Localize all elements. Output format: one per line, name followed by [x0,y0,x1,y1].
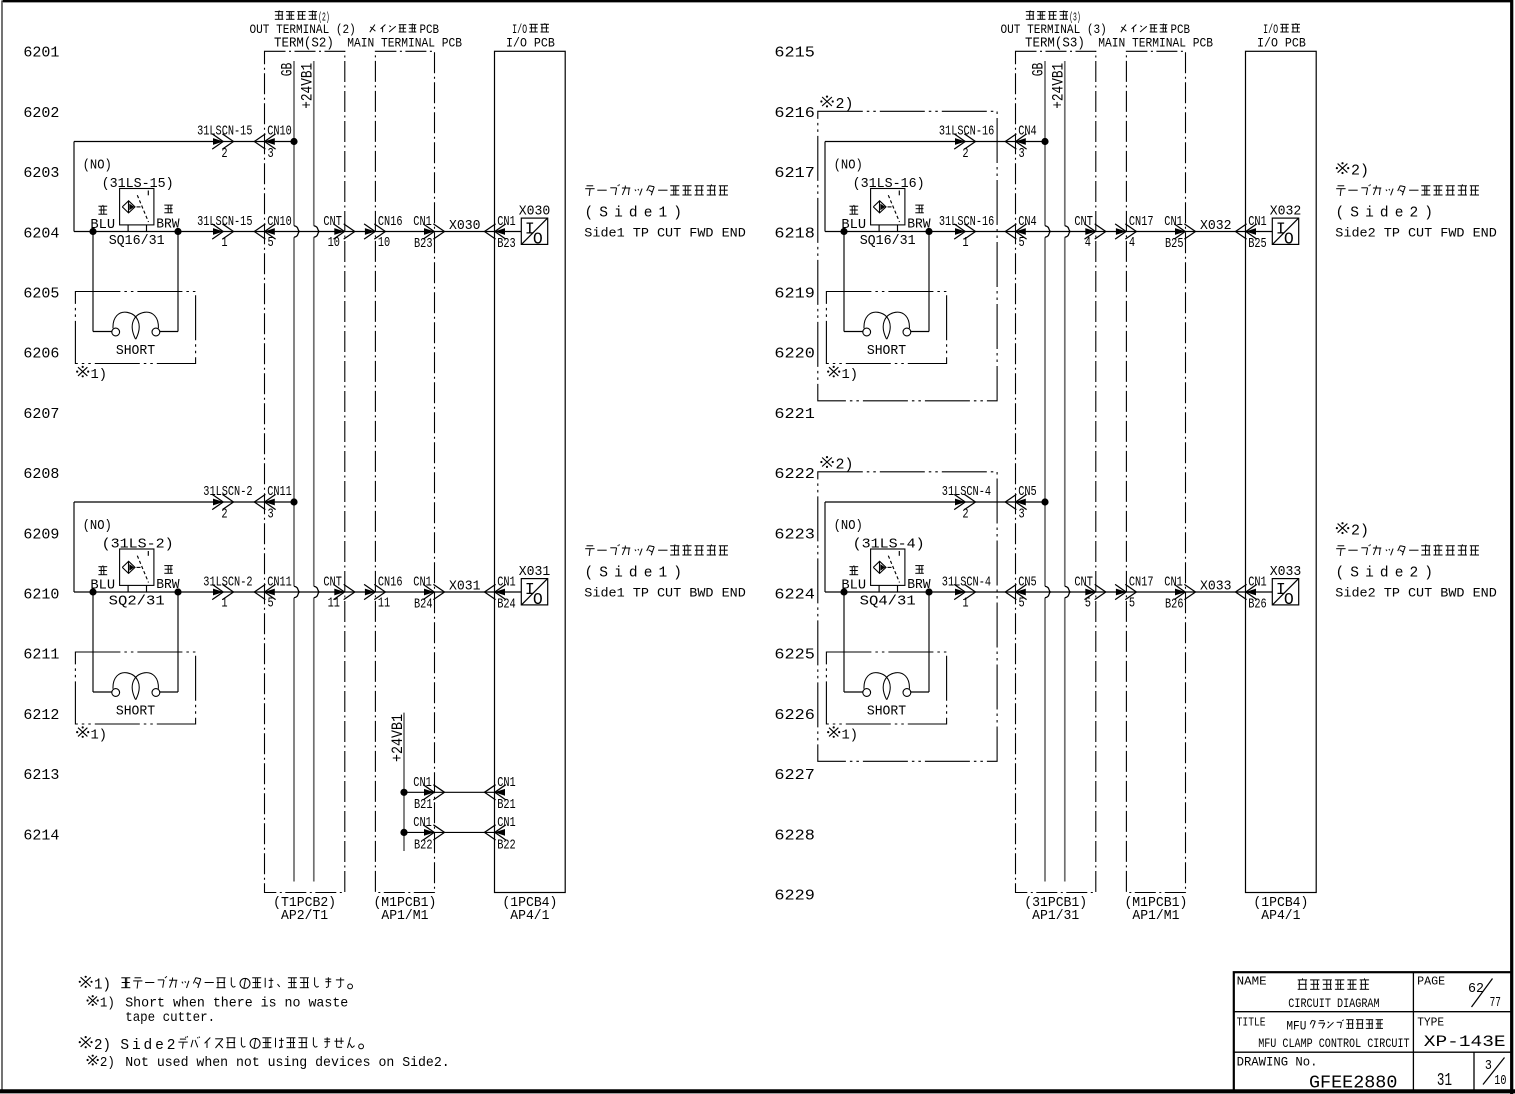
svg-text:CIRCUIT DIAGRAM: CIRCUIT DIAGRAM [1288,997,1379,1011]
svg-text:MAIN TERMINAL PCB: MAIN TERMINAL PCB [347,36,462,51]
svg-text:2): 2) [836,457,854,473]
svg-text:31LSCN-2: 31LSCN-2 [203,485,252,500]
svg-text:X030: X030 [449,219,481,234]
svg-text:B23: B23 [497,237,516,252]
svg-text:6206: 6206 [23,347,59,363]
svg-text:Not used when not using device: Not used when not using devices on Side2… [125,1055,450,1071]
svg-text:tape cutter.: tape cutter. [125,1010,215,1026]
svg-text:6213: 6213 [23,768,59,784]
svg-text:X031: X031 [449,579,481,594]
svg-text:6219: 6219 [774,287,815,303]
svg-text:O: O [1284,229,1294,248]
svg-text:5: 5 [1019,596,1025,611]
svg-text:(31LS-4): (31LS-4) [853,538,925,553]
svg-text:CN17: CN17 [1129,575,1154,590]
svg-text:(31LS-16): (31LS-16) [853,177,925,192]
svg-text:CN1: CN1 [413,816,432,831]
svg-text:1): 1) [91,367,108,383]
svg-text:5: 5 [268,236,274,251]
svg-text:CN1: CN1 [413,776,432,791]
svg-text:6216: 6216 [774,106,815,122]
svg-text:CN1: CN1 [497,816,516,831]
svg-text:B24: B24 [414,598,433,613]
svg-text:TITLE: TITLE [1237,1017,1266,1030]
svg-text:2: 2 [962,147,968,162]
svg-text:2): 2) [1351,524,1369,540]
svg-text:3: 3 [1485,1059,1492,1074]
svg-text:6208: 6208 [23,467,59,483]
svg-text:6210: 6210 [23,588,59,604]
svg-text:6217: 6217 [774,166,815,182]
svg-text:10: 10 [378,236,390,251]
svg-text:CN17: CN17 [1129,215,1154,230]
svg-text:6215: 6215 [774,46,815,62]
svg-text:B25: B25 [1248,237,1267,252]
svg-text:TERM(S3): TERM(S3) [1025,37,1085,52]
svg-text:CN11: CN11 [267,575,292,590]
svg-text:1): 1) [94,977,111,994]
svg-text:6221: 6221 [774,407,815,423]
svg-text:2): 2) [836,97,854,113]
svg-text:Side1 TP CUT BWD END: Side1 TP CUT BWD END [584,586,746,601]
svg-text:(NO): (NO) [834,159,863,174]
svg-text:SQ16/31: SQ16/31 [109,234,165,249]
svg-text:AP2/T1: AP2/T1 [281,909,328,924]
svg-text:1): 1) [100,996,115,1011]
svg-text:X030: X030 [519,204,551,219]
svg-text:GB: GB [279,63,297,77]
svg-text:O: O [1284,590,1294,609]
svg-text:2): 2) [100,1056,115,1071]
svg-text:CN1: CN1 [497,215,516,230]
svg-text:O: O [533,590,543,609]
svg-text:AP1/31: AP1/31 [1032,909,1079,924]
svg-text:2: 2 [221,147,227,162]
svg-text:B21: B21 [414,798,433,813]
svg-text:3: 3 [1019,147,1025,162]
svg-text:6201: 6201 [23,46,59,62]
svg-text:MAIN TERMINAL PCB: MAIN TERMINAL PCB [1098,36,1213,51]
svg-text:TERM(S2): TERM(S2) [274,37,334,52]
svg-text:6207: 6207 [23,407,59,423]
svg-text:3: 3 [268,508,274,523]
svg-text:O: O [533,229,543,248]
svg-text:10: 10 [328,236,340,251]
svg-text:3: 3 [1019,508,1025,523]
svg-text:31: 31 [1437,1071,1452,1091]
svg-text:CN1: CN1 [1164,215,1183,230]
svg-text:CN10: CN10 [267,125,292,140]
svg-text:(NO): (NO) [834,519,863,534]
svg-text:CN16: CN16 [378,575,403,590]
svg-text:CN1: CN1 [1248,575,1267,590]
svg-text:AP4/1: AP4/1 [510,909,549,924]
svg-text:PAGE: PAGE [1417,975,1445,988]
svg-text:2): 2) [94,1037,111,1054]
svg-text:5: 5 [268,596,274,611]
svg-text:5: 5 [1085,596,1091,611]
svg-text:31LSCN-16: 31LSCN-16 [939,125,994,140]
svg-text:6209: 6209 [23,527,59,543]
svg-text:(31LS-15): (31LS-15) [102,177,174,192]
svg-text:4: 4 [1129,236,1135,251]
svg-text:+24VB1: +24VB1 [298,63,316,109]
svg-text:1: 1 [221,596,227,611]
svg-text:CN4: CN4 [1018,215,1036,230]
svg-text:5: 5 [1129,596,1135,611]
svg-text:6226: 6226 [774,708,815,724]
svg-text:CN1: CN1 [497,776,516,791]
svg-text:+24VB1: +24VB1 [389,714,407,762]
svg-text:CN16: CN16 [378,215,403,230]
svg-text:Side2 TP CUT FWD END: Side2 TP CUT FWD END [1335,226,1497,241]
svg-text:(31LS-2): (31LS-2) [102,538,174,553]
svg-text:SHORT: SHORT [867,704,906,719]
svg-text:SHORT: SHORT [116,704,155,719]
svg-text:GB: GB [1030,63,1048,77]
svg-text:X032: X032 [1270,204,1302,219]
svg-text:CNT: CNT [323,575,342,590]
svg-text:1): 1) [842,727,859,743]
svg-text:11: 11 [378,596,390,611]
svg-text:31LSCN-4: 31LSCN-4 [942,575,991,590]
svg-text:CN10: CN10 [267,215,292,230]
svg-text:X032: X032 [1200,219,1232,234]
svg-text:SQ16/31: SQ16/31 [860,234,916,249]
svg-text:X033: X033 [1270,565,1302,580]
svg-text:SHORT: SHORT [867,344,906,359]
svg-text:2: 2 [962,507,968,522]
svg-text:CN1: CN1 [1164,575,1183,590]
svg-text:SQ2/31: SQ2/31 [109,595,165,610]
svg-text:B26: B26 [1165,598,1184,613]
svg-text:B21: B21 [497,798,516,813]
svg-text:6205: 6205 [23,287,59,303]
svg-text:CN5: CN5 [1018,575,1036,590]
svg-text:10: 10 [1494,1074,1506,1089]
svg-text:2): 2) [1351,164,1369,180]
svg-text:SQ4/31: SQ4/31 [860,595,916,610]
svg-text:6204: 6204 [23,226,59,242]
svg-text:31LSCN-15: 31LSCN-15 [197,125,252,140]
svg-text:+24VB1: +24VB1 [1049,63,1067,109]
svg-text:6214: 6214 [23,828,59,844]
svg-text:1): 1) [842,367,859,383]
svg-text:AP4/1: AP4/1 [1261,909,1300,924]
svg-text:SHORT: SHORT [116,344,155,359]
svg-text:AP1/M1: AP1/M1 [381,909,428,924]
svg-text:OUT TERMINAL (3): OUT TERMINAL (3) [1001,22,1107,37]
svg-text:1: 1 [221,236,227,251]
svg-text:NAME: NAME [1237,975,1267,988]
svg-text:62: 62 [1468,982,1484,997]
svg-text:CN1: CN1 [413,215,432,230]
svg-text:Side2 TP CUT BWD END: Side2 TP CUT BWD END [1335,586,1497,601]
svg-text:CN5: CN5 [1018,485,1036,500]
svg-text:CN4: CN4 [1018,125,1036,140]
svg-text:B25: B25 [1165,237,1184,252]
svg-text:CN1: CN1 [497,575,516,590]
svg-text:AP1/M1: AP1/M1 [1132,909,1179,924]
svg-text:6211: 6211 [23,648,59,664]
svg-text:31LSCN-2: 31LSCN-2 [203,575,252,590]
svg-text:31LSCN-16: 31LSCN-16 [939,215,994,230]
svg-text:2: 2 [221,507,227,522]
svg-text:1): 1) [91,727,108,743]
svg-text:6225: 6225 [774,648,815,664]
svg-text:11: 11 [328,596,340,611]
svg-text:5: 5 [1019,236,1025,251]
svg-text:B22: B22 [414,838,433,853]
svg-text:31LSCN-4: 31LSCN-4 [942,485,991,500]
svg-text:4: 4 [1085,236,1091,251]
svg-text:CN1: CN1 [1248,215,1267,230]
svg-text:6220: 6220 [774,347,815,363]
svg-text:GFEE2880: GFEE2880 [1309,1072,1397,1093]
svg-text:6218: 6218 [774,226,815,242]
svg-text:MFU CLAMP CONTROL CIRCUIT: MFU CLAMP CONTROL CIRCUIT [1258,1036,1410,1051]
svg-text:(NO): (NO) [83,519,112,534]
svg-text:X033: X033 [1200,579,1232,594]
svg-text:CNT: CNT [1074,575,1093,590]
svg-text:6222: 6222 [774,467,815,483]
svg-text:6203: 6203 [23,166,59,182]
svg-text:6223: 6223 [774,527,815,543]
svg-text:B23: B23 [414,237,433,252]
svg-text:6212: 6212 [23,708,59,724]
svg-text:CNT: CNT [323,215,342,230]
svg-text:31LSCN-15: 31LSCN-15 [197,215,252,230]
svg-text:B24: B24 [497,598,516,613]
svg-text:6227: 6227 [774,768,815,784]
svg-text:DRAWING No.: DRAWING No. [1237,1055,1318,1069]
svg-text:CN11: CN11 [267,485,292,500]
svg-text:1: 1 [962,596,968,611]
svg-text:B26: B26 [1248,598,1267,613]
svg-text:MFU: MFU [1286,1019,1306,1033]
svg-text:3: 3 [268,147,274,162]
svg-text:(NO): (NO) [83,159,112,174]
svg-text:6228: 6228 [774,828,815,844]
svg-text:6224: 6224 [774,588,815,604]
svg-text:I/O PCB: I/O PCB [506,36,555,51]
svg-text:TYPE: TYPE [1417,1017,1444,1030]
svg-text:XP-143E: XP-143E [1424,1033,1506,1051]
svg-text:X031: X031 [519,565,551,580]
svg-text:6229: 6229 [774,889,815,905]
svg-text:77: 77 [1490,996,1501,1011]
svg-text:CNT: CNT [1074,215,1093,230]
svg-text:OUT TERMINAL (2): OUT TERMINAL (2) [250,22,356,37]
svg-text:1: 1 [962,236,968,251]
svg-text:Side1 TP CUT FWD END: Side1 TP CUT FWD END [584,226,746,241]
svg-text:CN1: CN1 [413,575,432,590]
svg-text:6202: 6202 [23,106,59,122]
svg-text:B22: B22 [497,838,516,853]
svg-text:I/O PCB: I/O PCB [1257,36,1306,51]
svg-text:Side2: Side2 [120,1038,175,1054]
